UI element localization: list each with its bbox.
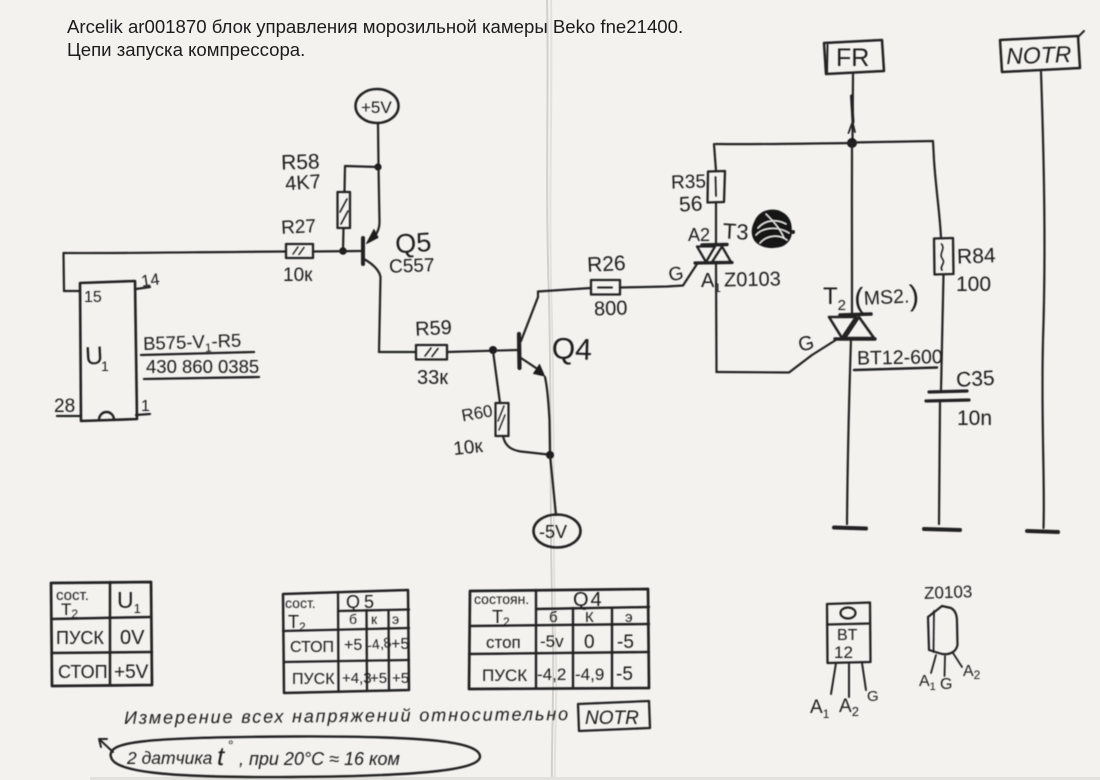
svg-text:R35: R35 (671, 171, 707, 193)
svg-text:состоян.: состоян. (474, 591, 529, 607)
svg-text:NOTR: NOTR (585, 708, 639, 729)
scribble blob (753, 211, 795, 246)
capacitor C35 (926, 367, 995, 430)
terminal NOTR (1000, 31, 1084, 72)
svg-text:Q5: Q5 (346, 592, 378, 612)
svg-text:+5: +5 (370, 670, 387, 687)
svg-text:Z0103: Z0103 (724, 268, 781, 291)
svg-text:+5: +5 (392, 670, 409, 687)
svg-text:-4,8: -4,8 (366, 634, 392, 653)
svg-text:56: 56 (678, 192, 703, 216)
resistor R58 (281, 150, 350, 228)
svg-text:G: G (940, 676, 952, 693)
svg-text:б: б (349, 611, 357, 627)
junction node Q4 emitter / R60 (546, 451, 554, 459)
svg-text:-4,2: -4,2 (537, 665, 566, 684)
resistor R60 (452, 351, 548, 460)
svg-text:BT: BT (837, 627, 858, 644)
svg-text:ПУСК: ПУСК (56, 628, 104, 648)
table Q5 voltages (283, 590, 409, 693)
svg-text:R27: R27 (281, 216, 317, 239)
wire FR node left to R35 (716, 143, 852, 144)
resistor R84 (934, 238, 996, 296)
svg-text:BT12-600: BT12-600 (857, 346, 943, 369)
svg-text:100: 100 (956, 273, 991, 296)
svg-text:Измерение всех напряжений отно: Измерение всех напряжений относительно (124, 704, 570, 728)
svg-text:СТОП: СТОП (58, 662, 108, 682)
svg-text:+5: +5 (344, 637, 362, 654)
U1 part number label (141, 330, 259, 379)
svg-text:FR: FR (836, 44, 869, 72)
svg-text:К: К (585, 609, 594, 626)
svg-text:33к: 33к (417, 367, 448, 389)
svg-text:2 датчика: 2 датчика (126, 748, 213, 768)
ground bar NOTR (1027, 531, 1058, 532)
svg-text:28: 28 (54, 396, 75, 417)
svg-text:NOTR: NOTR (1006, 41, 1072, 69)
ground bar T2 (834, 528, 866, 529)
IC U1 (80, 281, 137, 421)
svg-text:б: б (549, 609, 558, 626)
wire NOTR down (1041, 72, 1044, 528)
wire R84 to C35 (941, 275, 944, 392)
pin 14 (136, 270, 161, 290)
svg-text:-5: -5 (616, 664, 633, 685)
wire U1 pin15 to R27 (64, 252, 287, 292)
pin 1 (136, 398, 150, 415)
wire +5V down to node (377, 123, 380, 166)
svg-text:R59: R59 (415, 317, 453, 341)
svg-text:ПУСК: ПУСК (482, 666, 527, 685)
wire T3 A1 down (715, 263, 718, 372)
svg-text:T3: T3 (722, 218, 749, 244)
svg-text:+4,3: +4,3 (342, 670, 372, 687)
svg-text:к: к (371, 611, 378, 627)
triac T3 (688, 218, 781, 295)
triac T2 (823, 280, 943, 370)
svg-text:1: 1 (101, 358, 109, 374)
wire R35 to T3 A2 (715, 203, 717, 245)
schematic title (67, 16, 683, 60)
svg-text:э: э (625, 609, 633, 626)
svg-text:14: 14 (140, 270, 161, 290)
svg-text:Z0103: Z0103 (924, 582, 973, 603)
svg-text:стоп: стоп (486, 633, 521, 652)
svg-text:+5V: +5V (361, 98, 392, 117)
svg-text:+5: +5 (391, 636, 409, 653)
svg-text:0V: 0V (120, 627, 145, 649)
svg-text:0: 0 (584, 632, 595, 653)
wire R26 to T3 gate (620, 263, 697, 288)
wire FR node right then down to R84 (852, 141, 941, 238)
-5V supply (534, 515, 581, 548)
resistor R59 (415, 317, 453, 389)
svg-text:1: 1 (141, 398, 150, 415)
svg-text:R26: R26 (587, 252, 627, 277)
svg-text:°: ° (228, 737, 234, 753)
svg-text:СТОП: СТОП (290, 639, 334, 656)
wire to -5V (550, 455, 556, 515)
svg-text:10к: 10к (452, 436, 484, 460)
ground bar C35 (924, 529, 960, 530)
wire R59 to Q4 base (447, 350, 517, 352)
svg-text:сост.: сост. (285, 595, 316, 611)
junction node FR (847, 138, 857, 148)
svg-text:Q4: Q4 (573, 589, 604, 611)
wire R27 to Q5 base (313, 250, 361, 253)
transistor Q4 (519, 292, 592, 456)
svg-text:Arcelik ar001870 блок управлен: Arcelik ar001870 блок управления морозил… (67, 16, 683, 37)
svg-text:12: 12 (834, 643, 853, 662)
svg-text:10n: 10n (957, 407, 992, 430)
svg-text:10к: 10к (283, 265, 313, 286)
svg-text:G: G (867, 688, 879, 705)
svg-text:R84: R84 (957, 244, 997, 268)
svg-text:800: 800 (594, 297, 628, 320)
svg-text:A2: A2 (688, 225, 710, 245)
junction node Q5 base (339, 247, 347, 255)
svg-text:-4,9: -4,9 (575, 665, 604, 684)
table Q4 voltages (469, 589, 649, 689)
svg-text:-5: -5 (617, 632, 634, 653)
junction node +5V branch (374, 163, 381, 170)
package drawing BT12 (810, 603, 879, 722)
wire Q5 collector to R59 (379, 351, 416, 353)
svg-text:+5V: +5V (114, 662, 149, 683)
resistor R35 (671, 144, 725, 217)
wire T3 A1 to T2 gate (717, 331, 836, 372)
svg-text:С557: С557 (389, 255, 435, 278)
svg-text:-5v: -5v (540, 632, 564, 651)
wire FR node down to T2 (851, 143, 853, 314)
svg-text:C35: C35 (955, 367, 995, 392)
note: sensor oval (99, 736, 480, 777)
table T2/U1 states (51, 582, 152, 686)
wire R58 to base node (342, 228, 345, 251)
pin 15 (64, 289, 102, 306)
svg-text:Цепи запуска компрессора.: Цепи запуска компрессора. (67, 39, 305, 60)
svg-text:15: 15 (84, 289, 102, 306)
wire T2 down to ground (847, 339, 851, 524)
junction node Q4 base / R60 (489, 346, 497, 354)
wire node to R58 (345, 166, 379, 192)
svg-text:430 860 0385: 430 860 0385 (146, 356, 259, 377)
wire C35 to ground (939, 401, 940, 524)
svg-text:4K7: 4K7 (284, 171, 321, 195)
terminal FR (824, 40, 884, 74)
svg-text:э: э (392, 611, 399, 627)
svg-text:Q4: Q4 (551, 332, 592, 366)
resistor R26 (587, 252, 628, 321)
wire FR down to node (849, 74, 856, 143)
wire Q4 collector to R26 (538, 288, 591, 292)
+5V supply (356, 89, 399, 123)
svg-text:, при 20°С ≈ 16 ком: , при 20°С ≈ 16 ком (239, 749, 400, 769)
svg-text:-5V: -5V (539, 522, 567, 542)
transistor Q5 (363, 167, 435, 352)
pin 28 (54, 396, 81, 417)
package drawing Z0103 (919, 582, 981, 693)
NOTR reference box (578, 701, 650, 731)
svg-text:ПУСК: ПУСК (292, 671, 335, 688)
resistor R27 (281, 216, 317, 286)
